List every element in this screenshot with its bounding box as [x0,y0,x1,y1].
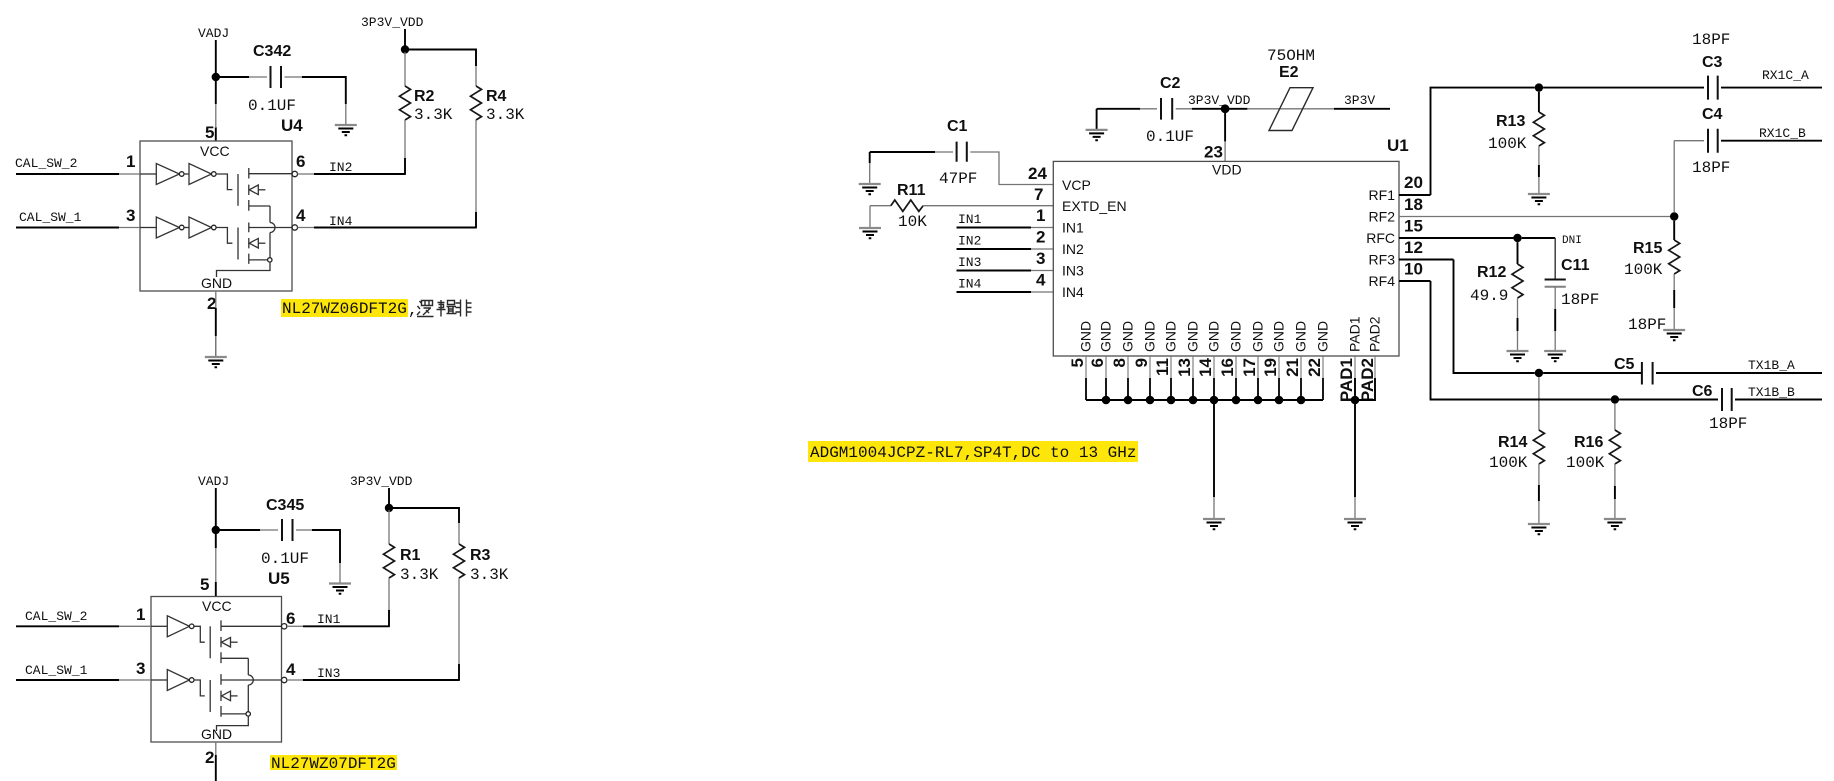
wire CAL_SW_2 [16,173,140,175]
wire RFC pin 15 [1399,237,1517,239]
ground PAD [1344,519,1366,529]
inverter A1 of U4 [140,164,184,185]
pin 2 number (U1) [1036,228,1045,247]
svg-text:18PF: 18PF [1692,159,1730,177]
svg-text:IN2: IN2 [958,234,981,249]
resistor R4 [471,66,525,228]
svg-text:3: 3 [126,206,135,225]
svg-text:RF1: RF1 [1369,187,1396,203]
pin 4 number [296,206,306,225]
U1 pin name RFC [1366,230,1395,246]
wire QA source to QB with hop (U5) [248,658,253,711]
svg-text:TX1B_B: TX1B_B [1748,385,1795,400]
U1 pin name RF2 [1369,209,1396,225]
wire 3P3V_VDD down [404,29,406,50]
wire C4 down to RF2 net [1673,141,1675,212]
svg-text:RF2: RF2 [1369,209,1396,225]
svg-text:VCP: VCP [1062,177,1091,193]
svg-text:PAD2: PAD2 [1367,316,1383,352]
U1 pin name IN4 [1062,284,1084,300]
PAD1 pin number [1337,358,1356,402]
svg-text:3P3V_VDD: 3P3V_VDD [1188,93,1251,108]
wire VADJ to U4 pin 5 [215,81,217,141]
svg-text:0.1UF: 0.1UF [248,97,296,115]
junction 3P3V_VDD [401,45,409,53]
svg-text:NL27WZ07DFT2G: NL27WZ07DFT2G [271,755,396,773]
svg-text:3P3V: 3P3V [1344,93,1375,108]
wire CAL_SW_2 (U5) [16,625,151,627]
svg-text:3P3V_VDD: 3P3V_VDD [350,474,413,489]
pin 23 number [1204,143,1223,162]
wire RF1 pin 20 to net RX1C_A [1399,88,1535,195]
ground C342 [335,125,357,135]
svg-text:RFC: RFC [1366,230,1395,246]
svg-text:3.3K: 3.3K [486,106,525,124]
U1 bottom pin numbers [1068,357,1324,376]
svg-text:CAL_SW_2: CAL_SW_2 [25,609,87,624]
svg-text:GND: GND [1142,321,1158,352]
svg-text:21: 21 [1283,358,1302,377]
junction PAD1 [1351,396,1360,405]
U1 pin name EXTD_EN [1062,198,1127,214]
ground R13 [1528,194,1550,204]
wire QB source to GND pin (U5) [217,716,249,731]
svg-text:VCC: VCC [202,598,232,614]
svg-text:C6: C6 [1692,383,1713,400]
IC reference U5 [268,569,290,588]
svg-text:GND: GND [1293,321,1309,352]
U1 pin name VDD [1212,162,1242,178]
wire VADJ to U5 pin 5 [215,534,217,597]
svg-text:IN4: IN4 [1062,284,1084,300]
ground R11 [859,228,881,238]
wire RF3 pin 12 to net TX1B_A [1399,260,1535,374]
IC U4 body [140,141,292,291]
svg-text:1: 1 [1036,206,1045,225]
svg-text:C2: C2 [1160,75,1181,92]
svg-text:3.3K: 3.3K [470,566,509,584]
node 3P3V_VDD [361,15,424,30]
svg-text:3: 3 [1036,249,1045,268]
wire RF4 pin 10 to net TX1B_B [1399,281,1611,400]
ground C2 [1086,130,1108,140]
wire IN1 [287,625,390,627]
U1 pin name RF1 [1369,187,1396,203]
svg-text:R16: R16 [1574,434,1603,451]
svg-text:IN3: IN3 [317,666,340,681]
svg-text:DNI: DNI [1562,235,1582,247]
svg-text:3P3V_VDD: 3P3V_VDD [361,15,424,30]
inverter A of U5 [151,616,194,637]
junction RFC/R12 [1513,234,1521,242]
svg-text:RF3: RF3 [1369,252,1396,268]
svg-text:ADGM1004JCPZ-RL7,SP4T,DC to 13: ADGM1004JCPZ-RL7,SP4T,DC to 13 GHz [810,444,1136,462]
svg-text:VCC: VCC [200,143,230,159]
pin 10 number [1404,260,1423,279]
svg-text:6: 6 [286,609,295,628]
svg-text:E2: E2 [1279,64,1299,81]
svg-text:0.1UF: 0.1UF [1146,128,1194,146]
ground C11 [1544,351,1566,361]
svg-text:C11: C11 [1561,257,1590,274]
svg-text:22: 22 [1305,358,1324,377]
U1 pin name PAD1 [1347,316,1363,352]
label DNI [1562,235,1582,247]
pin 12 number [1404,238,1423,257]
pin 5 number (U5) [200,575,209,594]
capacitor C6 [1619,383,1822,433]
svg-text:R1: R1 [400,547,421,564]
svg-text:R3: R3 [470,547,491,564]
svg-text:EXTD_EN: EXTD_EN [1062,198,1127,214]
pin 6 bubble [292,171,297,176]
svg-text:GND: GND [1228,321,1244,352]
node IN2 [329,160,352,175]
wire RF2 pin 18 [1399,216,1674,218]
ground GND bus [1203,519,1225,529]
junction RF2/C4/R15 [1670,212,1678,220]
capacitor C11 [1545,238,1600,351]
svg-text:GND: GND [1206,321,1222,352]
U1 pin name IN3 [1062,263,1084,279]
svg-text:C3: C3 [1702,54,1723,71]
pin 2 number [207,294,216,313]
svg-text:3.3K: 3.3K [400,566,439,584]
node 3P3V_VDD (U1) [1188,93,1251,108]
svg-text:18: 18 [1404,195,1423,214]
inverter B of U5 [151,670,194,691]
svg-text:GND: GND [1098,321,1114,352]
svg-text:IN1: IN1 [958,212,982,227]
svg-text:3: 3 [136,659,145,678]
text ",逻辑非" [408,300,472,320]
svg-text:IN4: IN4 [958,277,982,292]
U1 pin name RF3 [1369,252,1396,268]
svg-text:23: 23 [1204,143,1223,162]
ground R14 [1528,524,1550,534]
node CAL_SW_1 (U5 pin 3) [25,663,88,678]
transistor QA of U5 (upper) [194,620,282,663]
wire C2 to ground [1096,109,1098,130]
svg-text:CAL_SW_1: CAL_SW_1 [25,663,88,678]
node TX1B_B [1748,385,1795,400]
capacitor C3 [1692,31,1822,100]
bubble QB source [268,258,272,262]
svg-text:10K: 10K [898,213,927,231]
svg-text:GND: GND [1078,321,1094,352]
svg-text:C4: C4 [1702,106,1723,123]
pin 24 number [1028,164,1047,183]
U1 bottom GND pin names [1078,321,1331,352]
wire R11 to ground [869,206,871,228]
svg-text:100K: 100K [1488,135,1527,153]
PAD2 pin number [1358,358,1377,402]
svg-text:2: 2 [1036,228,1045,247]
ground C1 [859,184,881,194]
resistor R12 [1470,242,1523,351]
capacitor C1 [870,118,1054,188]
svg-text:C1: C1 [947,118,968,135]
node IN3 (U1 pin 3) [958,255,981,270]
wire C1 to ground [869,152,871,184]
svg-text:U1: U1 [1387,136,1409,155]
capacitor C4 [1674,106,1822,177]
wire VADJ vertical [215,40,217,73]
junction R14/TX1B_A [1535,369,1543,377]
svg-text:3.3K: 3.3K [414,106,453,124]
resistor R16 [1566,404,1620,519]
svg-text:1: 1 [126,152,135,171]
svg-text:RX1C_A: RX1C_A [1762,68,1809,83]
U1 bottom pin stubs [1086,356,1323,400]
junction R13/RX1C_A [1535,83,1543,91]
junction 3P3V_VDD/VDD [1221,104,1230,113]
svg-text:1: 1 [136,605,145,624]
transistor QA of U4 (upper) [216,168,292,211]
node VADJ [198,26,229,41]
svg-text:VDD: VDD [1212,162,1242,178]
part number NL27WZ06DFT2G highlighted [281,299,408,318]
svg-text:18PF: 18PF [1561,291,1599,309]
svg-text:19: 19 [1261,358,1280,377]
svg-text:GND: GND [1120,321,1136,352]
wire IN2 stub [957,248,1054,250]
svg-text:R14: R14 [1498,434,1527,451]
svg-text:C342: C342 [253,43,291,60]
pin 15 number [1404,217,1423,236]
svg-text:14: 14 [1196,357,1215,376]
svg-text:CAL_SW_1: CAL_SW_1 [19,210,82,225]
junction 3P3V_VDD (U5) [385,504,393,512]
pin 6 number [296,152,305,171]
svg-text:CAL_SW_2: CAL_SW_2 [15,156,77,171]
resistor R13 [1488,92,1544,194]
ground R12 [1507,351,1529,361]
pin 20 number [1404,173,1423,192]
svg-text:GND: GND [1250,321,1266,352]
node IN1 (U1 pin 1) [958,212,982,227]
U1 pin name IN2 [1062,241,1084,257]
svg-text:2: 2 [205,748,214,767]
svg-text:NL27WZ06DFT2G: NL27WZ06DFT2G [282,300,407,318]
svg-text:R4: R4 [486,88,507,105]
svg-text:47PF: 47PF [939,170,977,188]
wire QB source to GND pin [217,262,271,277]
ground R15 [1663,330,1685,340]
IC U5 body [151,597,282,743]
pin 3 number (U1) [1036,249,1045,268]
node IN4 (U1 pin 4) [958,277,982,292]
svg-text:C5: C5 [1614,356,1635,373]
svg-text:5: 5 [1068,358,1087,367]
IC U1 body [1053,161,1399,356]
wire IN4 stub [957,291,1054,293]
wire PAD1/PAD2 [1355,356,1375,400]
wire to C3 [1543,87,1704,89]
IC reference U1 [1387,136,1409,155]
pin 4 number (U1) [1036,271,1046,290]
svg-text:IN2: IN2 [329,160,352,175]
svg-text:0.1UF: 0.1UF [261,550,309,568]
IC reference U4 [281,116,303,135]
wire CAL_SW_1 [16,227,140,229]
svg-text:4: 4 [296,206,306,225]
wire U5 GND pin 2 [215,742,217,781]
resistor R11 [870,182,1053,231]
svg-text:TX1B_A: TX1B_A [1748,358,1795,373]
svg-text:R15: R15 [1633,240,1662,257]
pin 1 number (U1) [1036,206,1045,225]
svg-text:100K: 100K [1489,454,1528,472]
pin 5 number [205,123,214,142]
resistor R15 [1624,221,1680,330]
node 3P3V_VDD (U5) [350,474,413,489]
U1 pin name IN1 [1062,220,1084,236]
svg-text:IN3: IN3 [958,255,981,270]
svg-text:GND: GND [201,275,232,291]
inverter B2 of U4 [184,217,216,238]
svg-text:IN1: IN1 [1062,220,1084,236]
node VADJ (U5) [198,474,229,489]
svg-text:PAD1: PAD1 [1337,358,1356,402]
resistor R3 [454,523,509,680]
pin 4 number (U5) [286,660,296,679]
svg-text:RF4: RF4 [1369,273,1396,289]
svg-text:R2: R2 [414,88,435,105]
svg-text:6: 6 [1088,358,1107,367]
wire QA source to QB with hop over pin4 net [270,206,275,257]
wire PAD to ground [1354,400,1356,519]
node TX1B_A [1748,358,1795,373]
resistor R2 [400,52,453,174]
wire CAL_SW_1 (U5) [16,679,151,681]
svg-text:100K: 100K [1624,261,1663,279]
svg-text:5: 5 [205,123,214,142]
svg-text:100K: 100K [1566,454,1605,472]
capacitor C2 [1097,75,1248,146]
svg-text:13: 13 [1175,358,1194,377]
svg-text:GND: GND [1163,321,1179,352]
svg-text:GND: GND [1315,321,1331,352]
svg-text:4: 4 [1036,271,1046,290]
svg-text:R11: R11 [897,182,926,199]
svg-text:RX1C_B: RX1C_B [1759,126,1806,141]
wire 3P3V_VDD down (U5) [388,488,390,508]
pin 18 number [1404,195,1423,214]
svg-text:U4: U4 [281,116,303,135]
ground U4 pin 2 [205,357,227,367]
node IN1 [317,612,341,627]
node IN3 [317,666,340,681]
svg-text:R13: R13 [1496,113,1525,130]
node RX1C_B [1759,126,1806,141]
svg-text:18PF: 18PF [1709,415,1747,433]
wire VADJ vertical (U5) [215,488,217,526]
wire RFC to C11 [1522,237,1556,239]
svg-text:7: 7 [1034,185,1043,204]
pin 1 number [126,152,135,171]
svg-text:VADJ: VADJ [198,26,229,41]
svg-text:18PF: 18PF [1692,31,1730,49]
wire IN2 [298,173,406,175]
capacitor C342 [219,43,346,115]
pin 6 number (U5) [286,609,295,628]
svg-text:C345: C345 [266,497,304,514]
pin 2 number (U5) [205,748,214,767]
node CAL_SW_2 (U5 pin 1) [25,609,87,624]
resistor R14 [1489,377,1544,524]
pin 3 number (U5) [136,659,145,678]
svg-text:IN1: IN1 [317,612,341,627]
pin 7 number [1034,185,1043,204]
resistor R1 [384,510,439,626]
svg-text:4: 4 [286,660,296,679]
node IN4 [329,214,353,229]
svg-text:18PF: 18PF [1628,316,1666,334]
node CAL_SW_1 (U4 pin 3) [19,210,82,225]
svg-text:U5: U5 [268,569,290,588]
part number NL27WZ07DFT2G highlighted [270,755,397,773]
transistor QB of U4 (lower) [216,223,292,264]
svg-text:R12: R12 [1477,264,1506,281]
ground C345 [329,584,351,594]
pin 6 bubble (U5) [282,624,287,629]
node CAL_SW_2 (U4 pin 1) [15,156,77,171]
svg-text:6: 6 [296,152,305,171]
wire IN3 [287,679,460,681]
inverter A2 of U4 [184,164,216,185]
junction dots GND bus [1102,396,1306,405]
svg-text:VADJ: VADJ [198,474,229,489]
capacitor C5 [1543,356,1822,385]
svg-text:20: 20 [1404,173,1423,192]
wire C342 to ground [345,104,347,125]
ground R16 [1604,519,1626,529]
wire IN1 stub [957,227,1054,229]
transistor QB of U5 (lower) [194,674,282,717]
junction VADJ/C345 [212,526,220,534]
svg-text:IN2: IN2 [1062,241,1084,257]
wire C345 to ground [339,563,341,584]
svg-text:75OHM: 75OHM [1267,47,1315,65]
svg-text:8: 8 [1110,358,1129,367]
svg-text:11: 11 [1153,358,1172,376]
svg-text:24: 24 [1028,164,1047,183]
svg-text:10: 10 [1404,260,1423,279]
pin 1 number (U5) [136,605,145,624]
svg-text:GND: GND [1271,321,1287,352]
svg-text:17: 17 [1240,358,1259,377]
svg-text:,: , [408,301,418,319]
bubble QB source (U5) [246,712,250,716]
wire 3P3V_VDD to R4 [405,50,476,67]
wire GND bus to ground [1213,400,1215,519]
wire 3P3V_VDD to R3 [389,508,459,523]
junction VADJ/C342 [212,73,220,81]
svg-text:15: 15 [1404,217,1423,236]
U1 pin name RF4 [1369,273,1396,289]
pin 4 bubble (U5) [282,677,287,682]
wire U4 GND pin 2 [215,291,217,357]
part number ADGM1004JCPZ-RL7 highlighted [808,441,1138,462]
U1 pin name PAD2 [1367,316,1383,352]
pin 4 bubble [292,225,297,230]
node RX1C_A [1762,68,1809,83]
pin 3 number [126,206,135,225]
inverter B1 of U4 [140,217,184,238]
svg-text:5: 5 [200,575,209,594]
wire IN3 stub [957,270,1054,272]
